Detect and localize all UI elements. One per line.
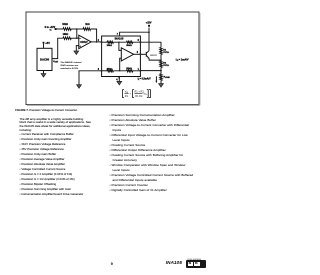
wire op-amp A1 output to INA105 pin 2 bbox=[91, 41, 101, 43]
pin square 3 bbox=[101, 70, 103, 72]
resistor R2 bbox=[160, 61, 162, 68]
wire input to R3 bbox=[57, 28, 64, 30]
svg-text:INA105: INA105 bbox=[115, 36, 124, 40]
wire inverting input bbox=[119, 42, 121, 50]
wire pin2 to R25a bbox=[102, 41, 107, 43]
svg-text:+: + bbox=[130, 93, 132, 96]
svg-text:25kΩ: 25kΩ bbox=[126, 45, 132, 47]
svg-text:1kΩ: 1kΩ bbox=[85, 24, 90, 26]
paragraph intro bbox=[20, 118, 84, 121]
svg-text:25kΩ: 25kΩ bbox=[107, 45, 113, 47]
wire A2 output to pin 6 bbox=[134, 53, 147, 55]
page number 9 bbox=[111, 263, 113, 267]
wire DAC Vout up to R4 bbox=[52, 38, 63, 58]
svg-text:OPA27: OPA27 bbox=[80, 41, 88, 44]
svg-text:2N2222: 2N2222 bbox=[150, 55, 158, 57]
caption FIGURE 7 bbox=[15, 110, 77, 113]
wire op-amp + input to ground bbox=[76, 46, 79, 51]
svg-text:IN: IN bbox=[145, 94, 148, 96]
wire to sense pin 5 bbox=[113, 41, 140, 43]
svg-text:787Ω: 787Ω bbox=[163, 52, 169, 54]
svg-text:4: 4 bbox=[116, 78, 118, 81]
ground DAC bbox=[41, 74, 46, 77]
figure border frame bbox=[26, 12, 199, 105]
svg-text:The INA105’s internal: The INA105’s internal bbox=[60, 61, 82, 64]
wire non-inverting input bbox=[120, 58, 122, 71]
wire RLOAD to ground bbox=[160, 80, 162, 83]
op-amp A2 internal bbox=[121, 48, 133, 61]
wire R2 to reference node bbox=[160, 67, 162, 73]
pin square 5 bbox=[140, 41, 142, 43]
node +5V supply for DAC bbox=[43, 42, 45, 44]
resistor 25k top-left bbox=[107, 41, 113, 43]
ground op-amp A1 bbox=[74, 51, 79, 54]
svg-text:= 1mA/V: = 1mA/V bbox=[179, 58, 189, 61]
svg-text:= 0.5mA/V: = 0.5mA/V bbox=[140, 77, 152, 80]
svg-text:25kΩ: 25kΩ bbox=[107, 68, 113, 70]
junction reference node bbox=[160, 70, 162, 72]
resistor 25k bottom-left bbox=[107, 70, 113, 72]
svg-text:10kΩ: 10kΩ bbox=[62, 24, 68, 26]
pin square 2 bbox=[101, 41, 103, 43]
pin 4 V- to ground bbox=[118, 77, 120, 82]
svg-text:matched to 0.01%.: matched to 0.01%. bbox=[60, 67, 79, 70]
logo Burr-Brown bbox=[186, 260, 206, 268]
resistor R1 bbox=[160, 47, 162, 54]
wire R1 to node E bbox=[160, 54, 162, 60]
op-amp A1 OPA27 bbox=[79, 35, 91, 49]
svg-text:R1: R1 bbox=[125, 95, 129, 98]
svg-text:LOAD: LOAD bbox=[165, 76, 171, 79]
wire DAC to ground bbox=[43, 71, 45, 74]
pin square 6 bbox=[140, 53, 142, 55]
DAC U1 DAC80 bbox=[37, 48, 52, 70]
wire R3 to summing node bbox=[71, 28, 83, 30]
wire to inverting node bbox=[118, 42, 119, 43]
wire emitter to node E bbox=[149, 58, 161, 60]
pin square 1 bbox=[140, 70, 142, 72]
ground reference bbox=[77, 85, 82, 88]
resistor RLOAD bbox=[160, 74, 162, 81]
wire reference pin3 to ground bbox=[79, 71, 102, 85]
node +15V supply bbox=[148, 28, 150, 51]
junction summing node top bbox=[76, 28, 78, 30]
ground pin4 bbox=[117, 81, 122, 84]
wire sense to R1 bbox=[140, 42, 161, 47]
resistor R5 5kOhm feedback bbox=[83, 28, 91, 31]
equation load current bbox=[123, 90, 151, 98]
svg-text:In: In bbox=[50, 30, 53, 32]
wire feedback to output node bbox=[91, 29, 97, 42]
current arrow IL bbox=[155, 76, 157, 81]
svg-text:+5V: +5V bbox=[45, 41, 50, 45]
left bullet column bbox=[20, 133, 74, 136]
svg-text:R1 R2: R1 R2 bbox=[135, 95, 143, 98]
svg-text:DAC80: DAC80 bbox=[40, 58, 50, 62]
svg-text:+15V: +15V bbox=[146, 22, 152, 25]
transistor Q1 2N2222 bbox=[145, 52, 147, 57]
op-amp U2 INA105 difference amplifier bbox=[102, 36, 141, 77]
wire reference back to pin 1 bbox=[140, 70, 161, 72]
svg-text:787Ω: 787Ω bbox=[163, 65, 169, 67]
junction node E bbox=[160, 59, 162, 61]
wire collector to +15V rail bbox=[148, 50, 150, 52]
resistor 25k top-right (feedback) bbox=[127, 41, 133, 43]
svg-text:25kΩ: 25kΩ bbox=[126, 68, 132, 70]
right bullet column bbox=[110, 114, 175, 117]
part number INA105 bbox=[166, 261, 182, 266]
pin 7 V+ bbox=[120, 32, 149, 36]
svg-text:25kΩ resistors are: 25kΩ resistors are bbox=[60, 64, 79, 67]
ground RLOAD bbox=[159, 84, 164, 87]
wire R4 to op-amp inverting input bbox=[71, 37, 79, 39]
svg-text:OUT: OUT bbox=[55, 61, 60, 63]
wire summing junction vertical bbox=[76, 29, 78, 38]
resistor R4 10kOhm bbox=[63, 37, 71, 40]
resistor R3 10kOhm input bbox=[63, 28, 71, 31]
wire pin3 through bottom resistors bbox=[102, 70, 107, 72]
resistor 25k bottom-right bbox=[127, 70, 133, 72]
svg-text:10kΩ: 10kΩ bbox=[63, 34, 69, 36]
